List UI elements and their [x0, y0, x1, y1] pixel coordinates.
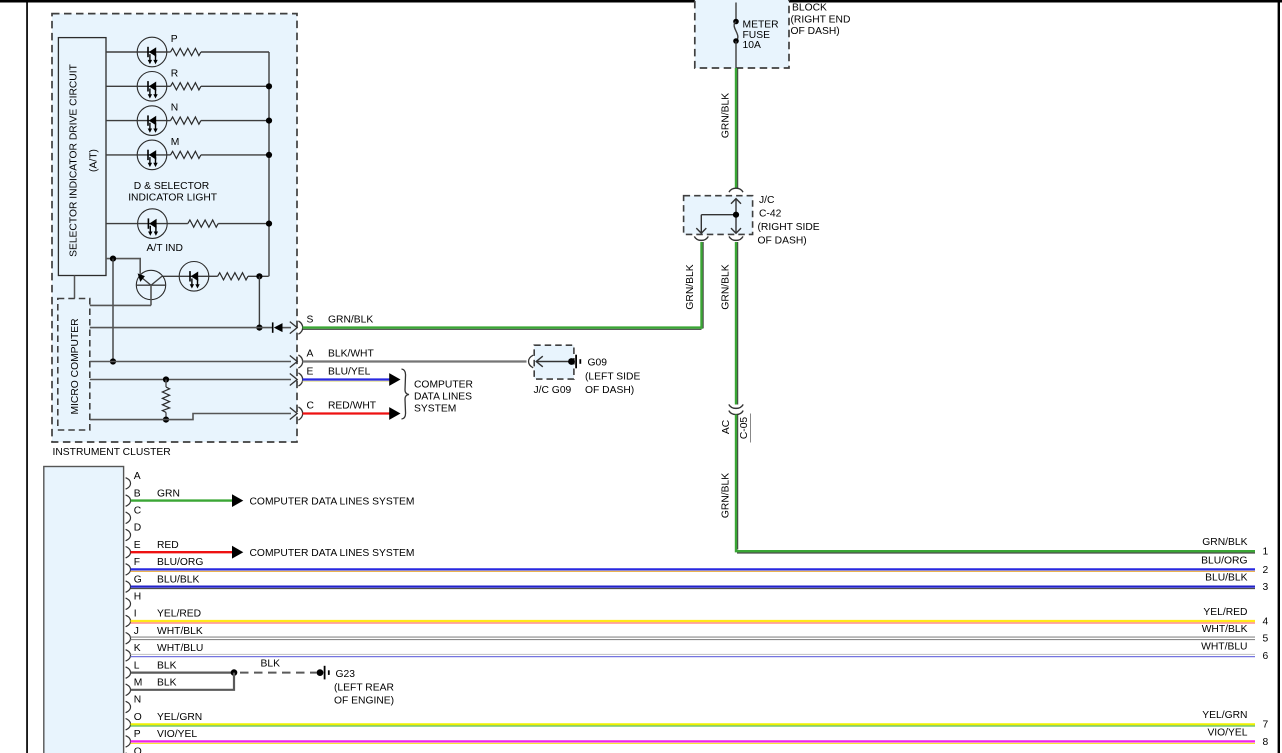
- node resistor bottom on C wire: [163, 417, 169, 423]
- wire R row: [106, 85, 269, 87]
- wire P row: [106, 51, 269, 53]
- svg-text:4: 4: [1263, 617, 1269, 628]
- connector pin D: [126, 529, 131, 540]
- resistor D/selector row: [188, 220, 218, 227]
- node A/T IND row junction: [256, 273, 262, 279]
- svg-text:COMPUTER DATA LINES SYSTEM: COMPUTER DATA LINES SYSTEM: [250, 548, 415, 559]
- connector pin I: [126, 615, 131, 626]
- connector pin K: [126, 650, 131, 661]
- wire O YEL/GRN: [131, 723, 1256, 725]
- svg-text:YEL/GRN: YEL/GRN: [157, 712, 202, 723]
- wire micro computer pin S row: [90, 327, 273, 329]
- wire micro computer pin C row: [90, 414, 291, 420]
- svg-text:P: P: [171, 34, 178, 45]
- svg-text:WHT/BLK: WHT/BLK: [157, 626, 203, 637]
- svg-text:C-05: C-05: [739, 417, 750, 440]
- svg-text:(LEFT REAR: (LEFT REAR: [334, 682, 394, 693]
- svg-text:GRN: GRN: [157, 488, 180, 499]
- svg-text:G09: G09: [588, 358, 608, 369]
- micro computer block: [58, 299, 90, 431]
- connector pin C: [290, 407, 303, 420]
- svg-text:M: M: [134, 678, 143, 689]
- svg-text:RED: RED: [157, 540, 179, 551]
- fuse block dashed box: [695, 0, 789, 68]
- connector pin E: [290, 373, 303, 386]
- fuse METER FUSE 10A: [733, 19, 739, 69]
- connector C-05: [729, 404, 743, 408]
- wire E RED red: [131, 551, 233, 553]
- transistor Q1: [136, 270, 165, 305]
- svg-text:INDICATOR LIGHT: INDICATOR LIGHT: [128, 193, 218, 204]
- svg-text:YEL/GRN: YEL/GRN: [1202, 710, 1247, 721]
- node bus-M: [266, 152, 272, 158]
- wire F BLU/ORG: [131, 568, 1256, 570]
- svg-text:OF DASH): OF DASH): [585, 385, 634, 396]
- svg-text:L: L: [134, 660, 140, 671]
- LED A/T IND: [179, 262, 209, 292]
- wire node down to pin A wire: [112, 259, 114, 362]
- ground G23: [317, 666, 330, 680]
- svg-text:K: K: [134, 643, 141, 654]
- svg-text:E: E: [134, 540, 141, 551]
- svg-text:GRN/BLK: GRN/BLK: [328, 315, 373, 326]
- wire K WHT/BLU: [131, 653, 1256, 655]
- svg-text:R: R: [171, 68, 178, 79]
- svg-text:BLU/ORG: BLU/ORG: [1201, 555, 1247, 566]
- connector pin E: [126, 547, 131, 558]
- svg-text:8: 8: [1263, 737, 1269, 748]
- svg-text:VIO/YEL: VIO/YEL: [1207, 727, 1247, 738]
- svg-text:BLU/BLK: BLU/BLK: [1205, 573, 1247, 584]
- resistor between E and C wires: [162, 387, 169, 412]
- LED P: [137, 37, 167, 67]
- resistor R row: [171, 83, 201, 90]
- resistor N row: [171, 117, 201, 124]
- svg-text:OF DASH): OF DASH): [758, 236, 807, 247]
- svg-text:RED/WHT: RED/WHT: [328, 401, 377, 412]
- node bus-N: [266, 118, 272, 124]
- svg-text:J: J: [134, 626, 139, 637]
- svg-text:BLK: BLK: [157, 678, 177, 689]
- svg-text:N: N: [171, 103, 178, 114]
- wire BLK dashed to ground: [240, 672, 317, 674]
- node on pin A wire: [110, 358, 116, 364]
- wire A BLK/WHT gray: [303, 360, 527, 362]
- wire P VIO/YEL: [131, 740, 1256, 742]
- svg-text:WHT/BLU: WHT/BLU: [157, 643, 203, 654]
- connector pin F: [126, 564, 131, 575]
- wire M row: [106, 154, 269, 156]
- svg-text:BLU/YEL: BLU/YEL: [328, 366, 371, 377]
- connector symbol before J/C G09: [529, 355, 534, 368]
- LED D/selector indicator: [138, 209, 168, 239]
- wire junction to S wire: [258, 276, 260, 327]
- svg-text:5: 5: [1263, 634, 1269, 645]
- svg-text:SYSTEM: SYSTEM: [414, 404, 456, 415]
- svg-text:1: 1: [1263, 547, 1269, 558]
- connector pin O: [126, 719, 131, 730]
- node resistor top on E wire: [163, 376, 169, 382]
- svg-text:MICRO COMPUTER: MICRO COMPUTER: [70, 318, 81, 414]
- wire E BLU/YEL blue: [303, 380, 390, 382]
- LED R: [137, 72, 167, 102]
- node selector-emitter wire: [110, 256, 116, 262]
- connector pin B: [126, 495, 131, 506]
- connector cap atop J/C C-42: [729, 188, 743, 192]
- connector pin L: [126, 667, 131, 678]
- svg-text:B: B: [134, 488, 141, 499]
- wire into fuse: [735, 3, 737, 22]
- internal wiring J/C C-42: [696, 199, 741, 234]
- arrow E wire to computer data lines: [389, 373, 400, 386]
- svg-text:J/C: J/C: [759, 195, 775, 206]
- wire S GRN/BLK green: [303, 328, 702, 330]
- wire selector box to micro computer: [74, 276, 76, 299]
- wire L BLK: [131, 671, 233, 673]
- wire G BLU/BLK: [131, 585, 1256, 587]
- connector pin A (bottom block): [126, 478, 131, 489]
- svg-text:Q: Q: [134, 746, 142, 753]
- wire GRN/BLK C-05 down and right to edge: [737, 415, 739, 550]
- svg-text:C: C: [134, 506, 142, 517]
- svg-text:M: M: [171, 137, 180, 148]
- svg-text:YEL/RED: YEL/RED: [157, 609, 201, 620]
- svg-text:7: 7: [1263, 720, 1269, 731]
- svg-text:BLOCK: BLOCK: [792, 3, 827, 14]
- wire D/selector indicator row: [106, 223, 269, 225]
- arrow E wire to computer data lines: [232, 546, 243, 559]
- bottom connector block: [44, 467, 124, 753]
- svg-text:G: G: [134, 574, 142, 585]
- svg-text:G23: G23: [336, 669, 356, 680]
- connector pin H: [126, 598, 131, 609]
- arrow C wire to computer data lines: [389, 407, 400, 420]
- node bus-D row: [266, 221, 272, 227]
- svg-text:DATA LINES: DATA LINES: [414, 392, 472, 403]
- svg-text:(RIGHT SIDE: (RIGHT SIDE: [758, 222, 820, 233]
- svg-text:F: F: [134, 557, 140, 568]
- LED M: [137, 140, 167, 170]
- junction connector J/C G09 box: [534, 345, 574, 379]
- LED N: [137, 106, 167, 136]
- selector indicator drive circuit block: [58, 38, 106, 276]
- connector pin J: [126, 633, 131, 644]
- wire A/T IND LED row: [162, 275, 269, 277]
- bus wire right vertical: [268, 52, 270, 276]
- svg-text:COMPUTER: COMPUTER: [414, 380, 473, 391]
- svg-text:WHT/BLU: WHT/BLU: [1201, 641, 1247, 652]
- svg-text:VIO/YEL: VIO/YEL: [157, 729, 197, 740]
- connector pin C: [126, 512, 131, 523]
- svg-text:J/C G09: J/C G09: [534, 385, 572, 396]
- wire micro computer pin E row: [90, 379, 291, 381]
- svg-text:GRN/BLK: GRN/BLK: [721, 264, 732, 309]
- wire N row: [106, 120, 269, 122]
- svg-text:SELECTOR INDICATOR DRIVE CIRCU: SELECTOR INDICATOR DRIVE CIRCUIT: [69, 63, 80, 257]
- node J/C C-42: [733, 212, 739, 218]
- svg-text:E: E: [307, 366, 314, 377]
- connector pin P: [126, 736, 131, 747]
- resistor A/T IND row: [218, 273, 248, 280]
- svg-text:GRN/BLK: GRN/BLK: [721, 93, 732, 138]
- diode on S wire: [272, 322, 283, 332]
- svg-text:6: 6: [1263, 651, 1269, 662]
- wire GRN/BLK C-42 to C-05: [737, 242, 739, 405]
- connector cups below J/C C-42: [694, 236, 708, 240]
- connector pin G: [126, 581, 131, 592]
- junction connector J/C C-42 box: [684, 196, 753, 235]
- svg-text:C: C: [307, 401, 315, 412]
- wire M BLK up to L junction: [131, 673, 235, 690]
- arrow inside J/C G09: [536, 356, 571, 367]
- wire C RED/WHT red: [303, 412, 390, 414]
- svg-text:(LEFT SIDE: (LEFT SIDE: [585, 371, 640, 382]
- svg-text:(RIGHT END: (RIGHT END: [791, 14, 851, 25]
- svg-text:BLU/ORG: BLU/ORG: [157, 557, 203, 568]
- wire I YEL/RED: [131, 620, 1256, 622]
- connector pin M: [126, 684, 131, 695]
- svg-text:A: A: [134, 471, 141, 482]
- svg-text:BLK: BLK: [261, 659, 281, 670]
- wire B GRN green: [131, 499, 233, 501]
- svg-text:BLU/BLK: BLU/BLK: [157, 574, 199, 585]
- brace computer data lines: [402, 369, 410, 419]
- svg-text:O: O: [134, 712, 142, 723]
- svg-text:OF ENGINE): OF ENGINE): [334, 696, 394, 707]
- svg-text:METER: METER: [743, 20, 779, 31]
- svg-text:INSTRUMENT CLUSTER: INSTRUMENT CLUSTER: [53, 447, 171, 458]
- svg-text:S: S: [307, 315, 314, 326]
- svg-text:C-42: C-42: [759, 209, 782, 220]
- svg-text:AC: AC: [721, 419, 732, 434]
- connector pin N: [126, 701, 131, 712]
- wire resistor stubs: [165, 380, 167, 388]
- resistor P row: [171, 48, 201, 55]
- svg-text:OF DASH): OF DASH): [791, 26, 840, 37]
- instrument cluster dashed box: [52, 14, 297, 442]
- svg-text:GRN/BLK: GRN/BLK: [721, 473, 732, 518]
- node L-M junction: [231, 669, 238, 676]
- svg-text:D: D: [134, 523, 141, 534]
- svg-text:3: 3: [1263, 582, 1269, 593]
- wire selector box to transistor emitter: [106, 259, 140, 274]
- svg-text:BLK/WHT: BLK/WHT: [328, 349, 374, 360]
- svg-text:10A: 10A: [743, 40, 761, 51]
- svg-text:I: I: [134, 609, 137, 620]
- svg-text:WHT/BLK: WHT/BLK: [1202, 624, 1248, 635]
- svg-text:BLK: BLK: [157, 660, 177, 671]
- arrow B wire to computer data lines: [232, 494, 243, 507]
- svg-text:D & SELECTOR: D & SELECTOR: [134, 181, 209, 192]
- svg-text:(A/T): (A/T): [89, 149, 100, 172]
- svg-text:GRN/BLK: GRN/BLK: [1202, 537, 1247, 548]
- resistor M row: [171, 151, 201, 158]
- svg-text:N: N: [134, 695, 141, 706]
- svg-text:A: A: [307, 349, 314, 360]
- connector pin S: [290, 321, 303, 334]
- ground G09: [568, 355, 581, 369]
- wire GRN/BLK vertical from J/C C-42 left: [702, 242, 704, 328]
- svg-text:YEL/RED: YEL/RED: [1203, 607, 1247, 618]
- wire micro computer pin A row: [90, 361, 291, 363]
- wire J WHT/BLK: [131, 636, 1256, 638]
- svg-text:GRN/BLK: GRN/BLK: [685, 264, 696, 309]
- connector pin A: [290, 355, 303, 368]
- svg-text:H: H: [134, 592, 141, 603]
- wire GRN/BLK fuse to J/C C-42: [737, 68, 739, 188]
- svg-text:A/T IND: A/T IND: [147, 243, 183, 254]
- svg-text:P: P: [134, 729, 141, 740]
- node bus-R: [266, 83, 272, 89]
- svg-text:COMPUTER DATA LINES SYSTEM: COMPUTER DATA LINES SYSTEM: [250, 497, 415, 508]
- svg-text:2: 2: [1263, 565, 1269, 576]
- wire micro computer to transistor base: [90, 304, 151, 306]
- node on S wire: [256, 325, 262, 331]
